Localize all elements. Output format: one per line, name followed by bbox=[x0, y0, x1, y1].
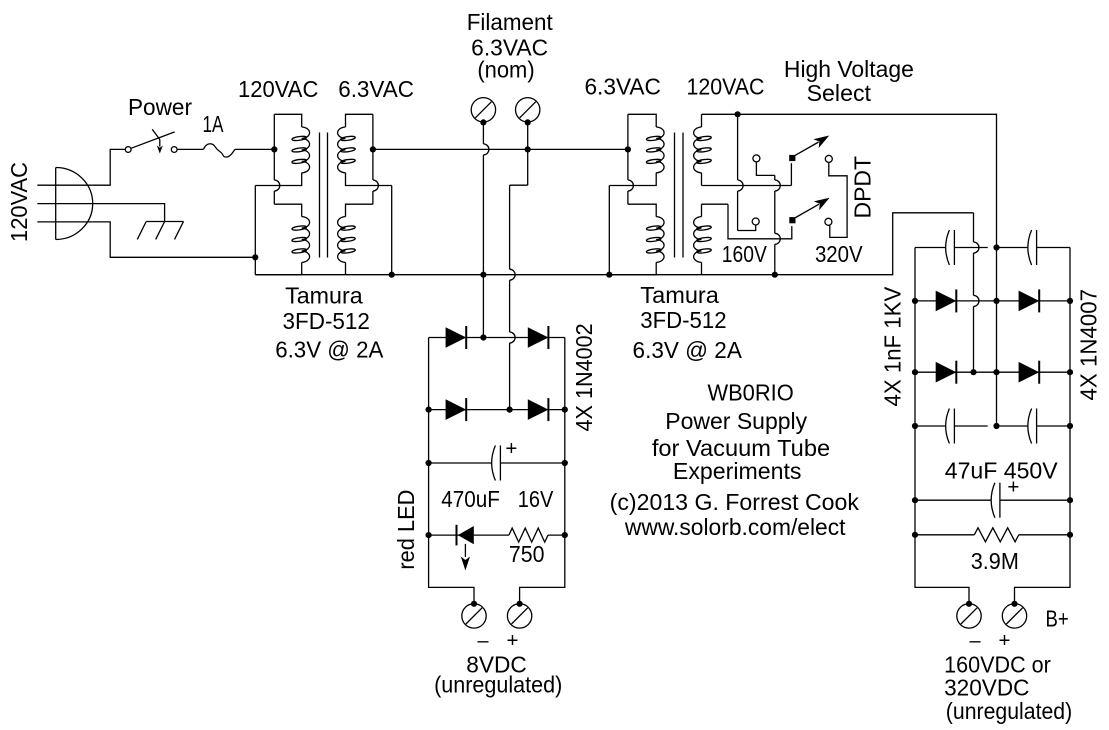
svg-text:120VAC: 120VAC bbox=[6, 162, 32, 242]
transformer T1 primary lead with hopover bbox=[274, 114, 280, 204]
wire HV bridge diode row 2 bbox=[915, 371, 1070, 373]
svg-text:470uF: 470uF bbox=[441, 486, 500, 512]
wire bottom 6.3V rail and HV feed bbox=[255, 213, 979, 372]
svg-text:Filament: Filament bbox=[467, 9, 554, 35]
wire DPDT pole1 contact A to low rail bbox=[756, 162, 780, 275]
LED red indicator bbox=[457, 525, 474, 546]
svg-text:Power Supply: Power Supply bbox=[665, 408, 807, 434]
junction filament terminal 1 bbox=[480, 119, 486, 125]
wire plug neutral to transformer T1 bbox=[92, 222, 255, 257]
junction HV AC input 2 bbox=[970, 369, 976, 375]
svg-text:3.9M: 3.9M bbox=[971, 548, 1019, 574]
svg-text:+: + bbox=[507, 630, 519, 652]
svg-text:6.3VAC: 6.3VAC bbox=[338, 76, 414, 102]
svg-text:Experiments: Experiments bbox=[673, 458, 802, 484]
wire fuse to transformer T1 primary bbox=[235, 148, 274, 150]
transformer T1 secondary lower winding bbox=[338, 204, 373, 275]
transformer T2 primary lead with hopover bbox=[628, 114, 634, 204]
diode D4 1N4002 bbox=[528, 398, 549, 421]
capacitor C2 1nF 1KV bbox=[946, 230, 955, 265]
capacitor C5 1nF 1KV bbox=[1028, 409, 1037, 444]
svg-text:DPDT: DPDT bbox=[850, 156, 876, 219]
wire HV bridge diode row 1 bbox=[915, 300, 1070, 302]
wire low bridge right bus bbox=[520, 338, 565, 604]
wire DPDT pole1 common stub bbox=[790, 163, 792, 185]
DPDT pole 1 common bbox=[789, 155, 795, 161]
wire HV right bus bbox=[1015, 248, 1071, 604]
filament terminal 1 bbox=[471, 98, 495, 122]
LED light arrow bbox=[461, 544, 470, 571]
svg-text:B+: B+ bbox=[1046, 605, 1069, 631]
svg-text:4X 1N4002: 4X 1N4002 bbox=[571, 323, 597, 431]
svg-text:(unregulated): (unregulated) bbox=[434, 672, 562, 698]
transformer T2 primary upper winding bbox=[609, 114, 664, 185]
svg-text:6.3V @ 2A: 6.3V @ 2A bbox=[633, 337, 743, 363]
DPDT pole 1 contact 320V side bbox=[825, 155, 832, 162]
svg-text:Tamura: Tamura bbox=[285, 283, 363, 309]
junction rail HV select bbox=[772, 272, 778, 278]
wire top rail to DPDT pole2 contact A bbox=[738, 114, 756, 230]
svg-text:320V: 320V bbox=[815, 241, 863, 267]
svg-text:+: + bbox=[999, 630, 1011, 652]
wire LED and resistor row bbox=[429, 534, 565, 536]
filament terminal 2 bbox=[516, 98, 540, 122]
svg-text:(c)2013 G. Forrest Cook: (c)2013 G. Forrest Cook bbox=[610, 489, 860, 515]
capacitor C3 1nF 1KV bbox=[1028, 230, 1037, 265]
svg-text:–: – bbox=[970, 630, 982, 652]
transformer T1 primary outer rail bbox=[254, 186, 256, 275]
fuse F1 bbox=[204, 144, 235, 157]
svg-text:120VAC: 120VAC bbox=[238, 76, 318, 102]
junction T1 secondary output bbox=[370, 146, 376, 152]
wire switch to fuse bbox=[177, 148, 203, 150]
svg-text:120VAC: 120VAC bbox=[687, 74, 765, 100]
svg-text:3FD-512: 3FD-512 bbox=[283, 308, 370, 334]
svg-text:www.solorb.com/elect: www.solorb.com/elect bbox=[624, 514, 846, 540]
svg-text:3FD-512: 3FD-512 bbox=[640, 307, 726, 333]
DPDT pole 2 lever with arrow bbox=[794, 198, 830, 219]
junctions HV buses bbox=[912, 298, 918, 304]
junction T1 primary input bbox=[271, 146, 277, 152]
transformer T1 secondary lead with hopover bbox=[373, 114, 379, 204]
svg-text:160V: 160V bbox=[722, 241, 768, 267]
wire 47uF row bbox=[915, 499, 1070, 501]
capacitor C1 470uF row wire bbox=[429, 462, 565, 464]
power switch SPST bbox=[125, 129, 177, 153]
wire T2 lower winding top to DPDT pole2 common bbox=[728, 204, 792, 239]
transformer T1 core bbox=[320, 133, 328, 258]
resistor R2 3.9M bbox=[974, 528, 1019, 542]
svg-text:–: – bbox=[478, 630, 490, 652]
svg-text:1A: 1A bbox=[203, 111, 224, 137]
svg-text:6.3VAC: 6.3VAC bbox=[584, 74, 661, 100]
junction top rail bbox=[735, 111, 741, 117]
svg-text:16V: 16V bbox=[518, 486, 554, 512]
wire 6.3VAC T1 to T2 bbox=[373, 148, 628, 150]
svg-text:(unregulated): (unregulated) bbox=[946, 698, 1072, 724]
DC output terminal plus (8VDC) bbox=[507, 604, 531, 628]
wire DPDT 320V bracket joining contacts B bbox=[829, 162, 847, 237]
svg-text:6.3V @ 2A: 6.3V @ 2A bbox=[275, 337, 384, 363]
wire HV left bus bbox=[915, 248, 969, 604]
wire low bridge diode row 1 bbox=[429, 337, 565, 339]
transformer T2 secondary upper winding bbox=[694, 114, 712, 185]
HV output terminal minus bbox=[957, 604, 981, 628]
diode D1 1N4002 bbox=[446, 326, 467, 349]
transformer T2 primary outer rail bbox=[608, 186, 610, 275]
DPDT pole 2 contact 160V side bbox=[752, 218, 759, 225]
svg-text:Tamura: Tamura bbox=[640, 282, 719, 308]
resistor R1 750 bbox=[509, 528, 548, 542]
junctions HV middle bus bbox=[993, 244, 999, 250]
earth ground symbol bbox=[137, 222, 183, 240]
wire low bridge diode row 2 bbox=[429, 409, 565, 411]
HV output terminal plus B+ bbox=[1002, 604, 1026, 628]
transformer T1 secondary upper winding bbox=[338, 114, 392, 185]
wire filament terminal 1 to bridge (hops 6.3VAC wire) bbox=[483, 122, 489, 337]
diode D5 1N4007 bbox=[936, 289, 957, 312]
capacitor C4 1nF 1KV bbox=[946, 409, 955, 444]
diode D7 1N4007 bbox=[936, 361, 957, 384]
DPDT pole 2 contact 320V side bbox=[825, 218, 832, 225]
wire filament terminal 2 to bridge bbox=[510, 122, 528, 409]
capacitor C6 47uF 450V electrolytic bbox=[991, 483, 1000, 518]
svg-text:WB0RIO: WB0RIO bbox=[707, 380, 793, 406]
transformer T2 secondary lower winding bbox=[694, 204, 728, 275]
transformer T2 core bbox=[675, 133, 684, 258]
DPDT pole 1 lever with arrow bbox=[794, 136, 830, 157]
junction filament terminal 2 bbox=[525, 119, 531, 125]
DC output terminal minus (8VDC) bbox=[462, 604, 486, 628]
diode D2 1N4002 bbox=[528, 326, 549, 349]
wire 120VAC top rail to HV bridge bbox=[702, 114, 997, 426]
diode D8 1N4007 bbox=[1019, 361, 1040, 384]
capacitor C1 470uF 16V electrolytic bbox=[492, 446, 501, 481]
junctions low bridge buses bbox=[426, 407, 432, 413]
svg-text:High Voltage: High Voltage bbox=[784, 56, 914, 82]
svg-text:red LED: red LED bbox=[393, 490, 419, 570]
wire HV bridge cap row 2 bbox=[915, 425, 1070, 427]
svg-text:Select: Select bbox=[807, 80, 872, 106]
diode D6 1N4007 bbox=[1019, 289, 1040, 312]
junction T1 neutral bbox=[252, 254, 258, 260]
svg-text:160VDC or: 160VDC or bbox=[944, 652, 1051, 678]
junction bridge AC input 2 bbox=[507, 407, 513, 413]
svg-text:4X 1N4007: 4X 1N4007 bbox=[1076, 289, 1102, 401]
junction rail T2 bbox=[606, 272, 612, 278]
wire plug ground lead bbox=[93, 204, 165, 222]
svg-text:(nom): (nom) bbox=[477, 57, 534, 83]
DPDT pole 1 contact 160V side bbox=[753, 155, 760, 162]
wire low bridge left bus bbox=[429, 338, 474, 604]
transformer T2 primary lower winding bbox=[609, 204, 664, 275]
svg-text:Power: Power bbox=[128, 94, 192, 120]
AC wall plug bbox=[37, 168, 92, 240]
svg-text:47uF 450V: 47uF 450V bbox=[945, 457, 1059, 483]
transformer T1 secondary outer rail bbox=[391, 186, 393, 275]
svg-text:4X 1nF 1KV: 4X 1nF 1KV bbox=[880, 286, 906, 406]
junction rail filament low side bbox=[480, 272, 486, 278]
wire bleeder resistor row bbox=[915, 534, 1070, 536]
junction filament tap bbox=[525, 146, 531, 152]
transformer T1 primary upper winding bbox=[255, 114, 309, 185]
svg-text:+: + bbox=[505, 438, 517, 460]
svg-text:750: 750 bbox=[509, 541, 545, 567]
wire plug hot to power switch bbox=[92, 149, 125, 185]
junction rail T1 secondary bbox=[389, 272, 395, 278]
svg-text:320VDC: 320VDC bbox=[944, 675, 1029, 701]
wire HV bridge cap row 1 bbox=[915, 247, 1070, 249]
diode D3 1N4002 bbox=[446, 398, 467, 421]
junction T2 input bbox=[625, 146, 631, 152]
transformer T1 primary lower winding bbox=[255, 204, 309, 275]
DPDT pole 2 common bbox=[789, 217, 795, 223]
wire T2 upper secondary bottom to DPDT pole 1 bbox=[702, 185, 792, 187]
junction bridge AC input 1 bbox=[480, 334, 486, 340]
